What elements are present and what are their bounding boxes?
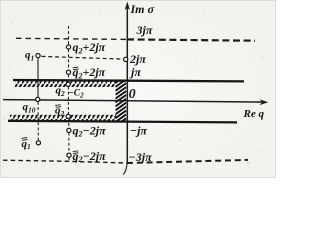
node circle conj-q2-2jpi (67, 153, 71, 157)
wire dashed 2jpi segment from q1 to axis (42, 56, 124, 59)
svg-text:10: 10 (28, 106, 36, 115)
node circle q10 (36, 97, 40, 101)
node circle q2+2jpi (66, 45, 70, 49)
svg-text:1: 1 (31, 53, 35, 62)
wire bottom boundary thick line minus-jpi level (8, 121, 237, 123)
node circle conj-q2 inside strip (66, 114, 70, 118)
wire dashed minus-3jpi level line left part (3, 160, 127, 163)
wire dashed vertical chain segment between q2-2jpi and conj (68, 133, 70, 153)
hatch region above bottom boundary (10, 115, 116, 121)
wire dashed vertical chain short segment to top boundary (68, 74, 70, 79)
svg-text:1: 1 (27, 142, 31, 151)
svg-text:Im σ: Im σ (130, 2, 155, 16)
svg-text:3jπ: 3jπ (136, 23, 153, 37)
svg-text:jπ: jπ (129, 65, 141, 79)
wire Im-axis bottom tail curl (123, 158, 127, 175)
wire dashed segment q10 to conj-q1 (37, 102, 39, 140)
svg-text:−jπ: −jπ (130, 124, 148, 138)
wire top boundary thick line jpi level (13, 80, 244, 81)
wire dashed vertical chain top segment above q2+2jpi (68, 26, 70, 45)
wire dashed vertical tail below conj-q2-2jpi (68, 157, 70, 162)
wire Re-axis horizontal line (3, 100, 264, 103)
svg-text:Re q: Re q (243, 108, 265, 120)
wire dashed minus-3jpi level line right part (127, 160, 248, 163)
node circle q2-2jpi (67, 128, 71, 132)
node conj-q2 overbar strokes (55, 105, 61, 108)
wire dashed vertical segment q2 to conj-q2 inside strip (67, 87, 69, 115)
node Re-axis arrowhead (260, 99, 269, 105)
paper mottling (0, 0, 1, 1)
wire dashed 3jpi level line left part (16, 38, 127, 39)
hatch region below top boundary (15, 81, 116, 87)
svg-text:0: 0 (129, 87, 136, 102)
node conj-q2+2jpi overbar strokes (73, 67, 79, 70)
wire dashed vertical chain segment between q2+2jpi and conj (68, 49, 70, 70)
svg-text:q2+2jπ: q2+2jπ (73, 40, 106, 55)
node circle q2 inside strip (66, 82, 70, 86)
node circle conj-q2+2jpi (66, 70, 70, 74)
node conj-q1 overbar strokes (22, 138, 28, 141)
node circle conj-q1 (36, 141, 40, 145)
svg-text:q2−2jπ: q2−2jπ (73, 123, 107, 138)
node circle q1 (36, 54, 40, 58)
wire dashed 3jpi level line right part (127, 39, 255, 40)
paper speckle noise (1, 8, 270, 174)
wire dashed vertical chain below bottom boundary (68, 123, 70, 128)
wire Im-axis vertical line (126, 6, 128, 162)
wire solid segment q1 to q10 (37, 58, 39, 97)
node conj-q2-2jpi overbar strokes (73, 151, 79, 154)
node circle at 2jpi on axis (124, 57, 128, 61)
node Im-axis arrowhead (125, 2, 130, 11)
